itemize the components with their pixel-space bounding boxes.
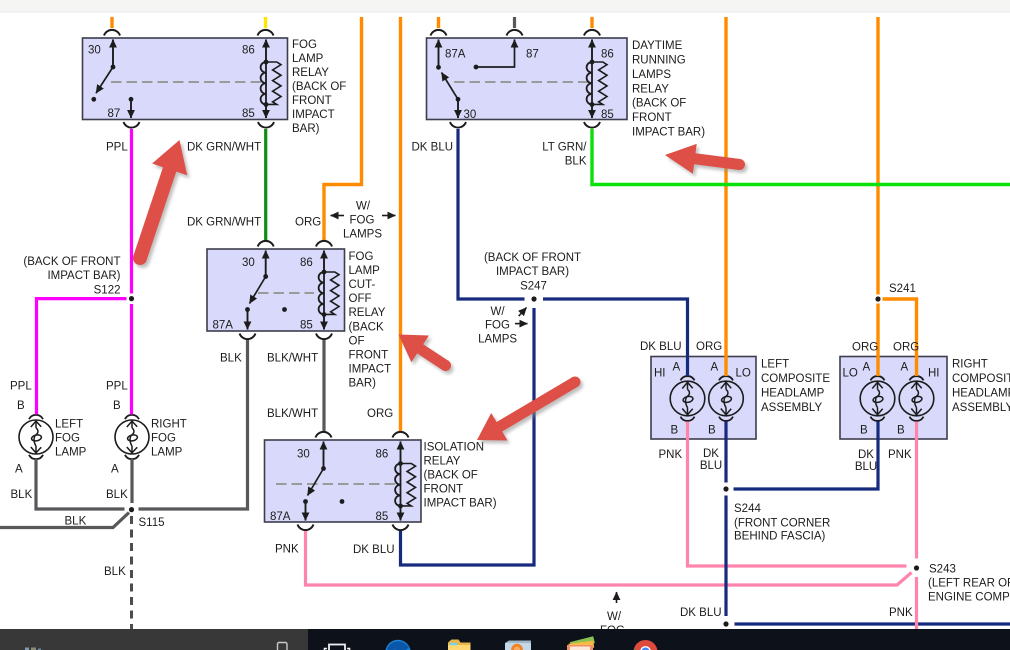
- relay K4 dashed armature line: [276, 483, 396, 485]
- svg-text:IMPACT BAR): IMPACT BAR): [424, 498, 497, 510]
- node S241: [875, 283, 915, 302]
- relay K1 pin 30 terminal: [111, 40, 116, 70]
- taskbar photo gallery icon: [567, 636, 595, 650]
- label BLK/WHT above K4 pin 30: [267, 408, 318, 420]
- svg-text:BLK: BLK: [104, 566, 126, 578]
- label PNK under right headlamp: [888, 449, 912, 461]
- relay K1 pin 86 terminal: [265, 40, 267, 63]
- left composite headlamp assembly box: [651, 357, 756, 440]
- svg-text:(BACK OF FRONT: (BACK OF FRONT: [23, 256, 120, 268]
- svg-text:FRONT: FRONT: [292, 95, 332, 107]
- node S122: [129, 296, 134, 301]
- svg-text:COMPOSITE: COMPOSITE: [761, 373, 830, 385]
- svg-text:DK BLU: DK BLU: [680, 607, 722, 619]
- label BLK on left edge wire: [65, 516, 87, 528]
- relay K3 dashed armature line: [258, 292, 314, 294]
- svg-text:(BACK OF FRONT: (BACK OF FRONT: [484, 252, 581, 264]
- left fog lamp name label: [55, 419, 87, 459]
- svg-text:ORG: ORG: [295, 217, 321, 229]
- node S115: [129, 507, 165, 529]
- svg-text:FOG: FOG: [350, 215, 375, 227]
- svg-text:BLK: BLK: [565, 156, 587, 168]
- svg-text:ORG: ORG: [367, 408, 393, 420]
- label DK BLU under left headlamp: [700, 448, 722, 472]
- svg-text:(BACK OF: (BACK OF: [632, 98, 686, 110]
- svg-text:FOG: FOG: [349, 251, 374, 263]
- right headlamp name label: [952, 359, 1010, 415]
- wire DK BLU S244 branch to right headlamp LO-B: [734, 422, 879, 490]
- svg-text:S247: S247: [520, 281, 547, 293]
- relay K4 ISOLATION RELAY box: [265, 440, 422, 522]
- svg-text:DK: DK: [858, 449, 874, 461]
- taskbar phone icon: [278, 643, 288, 650]
- svg-text:A: A: [111, 464, 119, 476]
- svg-text:DK BLU: DK BLU: [412, 142, 454, 154]
- svg-text:FRONT: FRONT: [632, 112, 672, 124]
- right fog lamp E6: [115, 415, 149, 459]
- relay K4 name label: [424, 442, 497, 510]
- svg-text:FRONT: FRONT: [424, 484, 464, 496]
- svg-text:LAMPS: LAMPS: [343, 229, 382, 241]
- relay K1 coil: [261, 60, 281, 107]
- svg-text:LO: LO: [736, 368, 751, 380]
- svg-text:DK: DK: [703, 448, 719, 460]
- svg-text:FOG: FOG: [55, 433, 80, 445]
- taskbar right black section: [308, 629, 1010, 650]
- svg-text:DK BLU: DK BLU: [353, 544, 395, 556]
- label B at right fog lamp: [113, 400, 121, 412]
- relay K2 pin 86 terminal: [591, 40, 593, 63]
- node S247: [531, 296, 536, 301]
- label ORG above K3: [295, 217, 321, 229]
- svg-text:A: A: [15, 464, 23, 476]
- svg-text:(BACK: (BACK: [349, 321, 384, 333]
- wire LT GRN/BLK from K2 pin 85 right across page: [584, 122, 1010, 185]
- svg-text:RUNNING: RUNNING: [632, 55, 686, 67]
- svg-text:B: B: [671, 425, 679, 437]
- label DK BLU above left headlamp: [640, 341, 682, 353]
- svg-text:S243: S243: [929, 564, 956, 576]
- svg-text:RELAY: RELAY: [632, 84, 669, 96]
- svg-text:87A: 87A: [213, 320, 234, 332]
- relay K4 pin 87A terminal: [305, 502, 307, 521]
- wire BLK from left edge to S115: [0, 513, 129, 528]
- red annotation arrow 2: [399, 335, 452, 372]
- svg-text:RIGHT: RIGHT: [952, 359, 988, 371]
- svg-text:30: 30: [464, 109, 477, 121]
- svg-text:W/: W/: [356, 201, 371, 213]
- svg-text:LEFT: LEFT: [761, 359, 789, 371]
- wire ORG feeder to K2 pin 86: [584, 17, 600, 36]
- svg-text:LAMPS: LAMPS: [632, 69, 671, 81]
- relay K2 switch blade: [442, 73, 461, 102]
- relay K1 switch blade: [91, 67, 113, 102]
- red annotation arrow 4: [665, 144, 745, 174]
- taskbar folder explorer icon: [448, 640, 471, 650]
- relay K2 DAYTIME RUNNING LAMPS RELAY box: [427, 38, 628, 120]
- svg-text:A: A: [711, 362, 719, 374]
- label PPL under K1 pin 87: [106, 142, 128, 154]
- svg-text:ENGINE COMPT: ENGINE COMPT: [928, 592, 1010, 604]
- svg-text:BLK: BLK: [220, 353, 242, 365]
- svg-text:A: A: [673, 362, 681, 374]
- label ORG above right headlamp HI: [893, 342, 919, 354]
- label LT GRN/BLK under K2 pin 85: [542, 142, 587, 168]
- svg-text:30: 30: [242, 257, 255, 269]
- label BLK under right fog lamp: [106, 489, 128, 501]
- label W/ FOG at bottom with up arrow: [600, 592, 625, 637]
- svg-text:OFF: OFF: [349, 293, 372, 305]
- left headlamp pin labels: [654, 362, 751, 437]
- label DK GRN/WHT under K1 pin 85: [187, 142, 261, 154]
- left headlamp name label: [761, 359, 830, 415]
- svg-text:RELAY: RELAY: [349, 307, 386, 319]
- wire PPL S122 branch to left fog lamp B: [37, 299, 127, 415]
- svg-text:W/: W/: [490, 306, 505, 318]
- relay K1 dashed armature line: [111, 81, 264, 83]
- svg-text:RELAY: RELAY: [424, 456, 461, 468]
- right composite headlamp assembly box: [840, 357, 947, 440]
- svg-text:IMPACT BAR): IMPACT BAR): [47, 270, 120, 282]
- taskbar left dark section: [0, 629, 308, 650]
- svg-text:DK GRN/WHT: DK GRN/WHT: [187, 217, 261, 229]
- label W/ FOG LAMPS at orange jog: [331, 201, 396, 241]
- svg-text:PNK: PNK: [659, 449, 683, 461]
- svg-text:ORG: ORG: [893, 342, 919, 354]
- svg-text:ASSEMBLY: ASSEMBLY: [952, 402, 1010, 414]
- svg-text:(BACK OF: (BACK OF: [424, 470, 478, 482]
- svg-text:DAYTIME: DAYTIME: [632, 40, 683, 52]
- relay K4 unused contact dot: [340, 499, 345, 504]
- wire DK BLU from S247 to left headlamp HI: [543, 299, 688, 376]
- svg-text:A: A: [901, 362, 909, 374]
- relay K4 switch blade: [303, 469, 323, 504]
- svg-text:87: 87: [108, 108, 121, 120]
- svg-text:RELAY: RELAY: [292, 67, 329, 79]
- svg-text:86: 86: [376, 449, 389, 461]
- relay K2 pin 85 terminal: [591, 105, 593, 119]
- svg-text:IMPACT BAR): IMPACT BAR): [632, 127, 705, 139]
- label PPL at right fog lamp: [106, 381, 128, 393]
- svg-text:B: B: [113, 400, 121, 412]
- taskbar task-view icon: [325, 645, 350, 650]
- svg-text:FRONT: FRONT: [349, 350, 389, 362]
- relay K3 pin 85 terminal: [323, 315, 325, 330]
- label ORG above K4 pin 86: [367, 408, 393, 420]
- svg-text:S122: S122: [94, 285, 121, 297]
- relay K3 pin 30 terminal: [263, 251, 268, 279]
- svg-text:DK BLU: DK BLU: [640, 341, 682, 353]
- label ORG above right headlamp LO: [852, 342, 878, 354]
- svg-text:87A: 87A: [270, 511, 291, 523]
- svg-text:86: 86: [300, 257, 313, 269]
- relay K3 coil: [319, 270, 339, 317]
- svg-text:BLU: BLU: [700, 460, 722, 472]
- svg-text:ASSEMBLY: ASSEMBLY: [761, 402, 822, 414]
- svg-text:HI: HI: [654, 368, 666, 380]
- label DK BLU under right headlamp: [855, 449, 877, 473]
- taskbar edge browser icon: [385, 640, 410, 650]
- relay K3 name label: [349, 251, 392, 390]
- red annotation arrow 1: [133, 140, 187, 265]
- svg-text:86: 86: [601, 49, 614, 61]
- wire BLK/WHT from K3 pin 85 to K4 pin 30: [316, 334, 333, 438]
- left fog lamp E5: [19, 415, 53, 459]
- svg-text:OF: OF: [349, 335, 365, 347]
- wire DK BLU bottom run to right edge: [735, 622, 1010, 625]
- label PNK under left headlamp: [659, 449, 683, 461]
- S244 location label: [734, 503, 830, 543]
- label PNK under K4 pin 87A: [275, 544, 299, 556]
- svg-text:LT GRN/: LT GRN/: [542, 142, 587, 154]
- wire ORG feeder to K2 pin 87A: [431, 17, 447, 36]
- svg-text:CUT-: CUT-: [349, 279, 376, 291]
- wire DK BLU left headlamp LO-B to S244 and down: [724, 422, 727, 617]
- node S243: [914, 565, 919, 570]
- svg-text:BLU: BLU: [855, 461, 877, 473]
- relay K4 coil: [395, 461, 415, 508]
- svg-text:85: 85: [376, 511, 389, 523]
- svg-text:BLK/WHT: BLK/WHT: [267, 408, 318, 420]
- svg-text:LEFT: LEFT: [55, 419, 83, 431]
- svg-text:BEHIND FASCIA): BEHIND FASCIA): [734, 531, 826, 543]
- svg-text:BAR): BAR): [349, 378, 377, 390]
- svg-text:IMPACT BAR): IMPACT BAR): [496, 266, 569, 278]
- relay K3 pin 86 terminal: [323, 251, 325, 273]
- svg-text:ISOLATION: ISOLATION: [424, 442, 485, 454]
- wire ORG feeder to K1 pin 30: [104, 17, 120, 36]
- wire PPL from K1 pin 87 to S122 and right fog lamp B: [124, 122, 140, 415]
- svg-text:(BACK OF: (BACK OF: [292, 81, 346, 93]
- wire PNK left headlamp HI-B to S243: [688, 422, 907, 567]
- svg-text:S241: S241: [889, 283, 916, 295]
- relay K2 pin labels: [445, 49, 614, 122]
- svg-text:30: 30: [297, 449, 310, 461]
- svg-text:BLK: BLK: [65, 516, 87, 528]
- wire ORG S241 branch to right headlamp HI: [883, 299, 917, 376]
- label BLK under left fog lamp: [11, 489, 33, 501]
- svg-text:HEADLAMP: HEADLAMP: [952, 388, 1010, 400]
- svg-text:RIGHT: RIGHT: [151, 419, 187, 431]
- svg-text:85: 85: [242, 108, 255, 120]
- wire PNK from K4 pin 87A to S243: [298, 525, 912, 586]
- svg-text:W/: W/: [607, 611, 622, 623]
- relay K4 pin 86 terminal: [400, 442, 402, 464]
- relay K1 pin 85 terminal: [265, 105, 267, 119]
- relay K1 pin 87 terminal: [129, 97, 134, 118]
- wire BLK left fog lamp A to S115: [36, 459, 125, 509]
- svg-text:PNK: PNK: [888, 449, 912, 461]
- taskbar chrome icon: [634, 640, 658, 650]
- relay K2 name label: [632, 40, 705, 139]
- label ORG above left headlamp: [696, 341, 722, 353]
- svg-text:HEADLAMP: HEADLAMP: [761, 388, 825, 400]
- wire ORG vertical with jog to K3 pin 86: [316, 17, 362, 247]
- svg-text:86: 86: [242, 45, 255, 57]
- svg-text:85: 85: [601, 109, 614, 121]
- svg-text:FOG: FOG: [485, 320, 510, 332]
- svg-text:(FRONT CORNER: (FRONT CORNER: [734, 518, 830, 530]
- svg-text:HI: HI: [928, 368, 940, 380]
- label DK BLU at bottom run: [680, 607, 722, 619]
- svg-text:LAMPS: LAMPS: [478, 333, 517, 345]
- svg-text:FOG: FOG: [292, 39, 317, 51]
- svg-text:BLK/WHT: BLK/WHT: [267, 353, 318, 365]
- label PNK at bottom: [889, 607, 913, 619]
- svg-text:S115: S115: [139, 517, 165, 529]
- taskbar software box icon: [505, 641, 531, 650]
- right headlamp pin labels: [843, 362, 940, 437]
- svg-text:BAR): BAR): [292, 123, 320, 135]
- node S244: [723, 486, 728, 491]
- svg-text:ORG: ORG: [852, 342, 878, 354]
- svg-text:PNK: PNK: [275, 544, 299, 556]
- wire PNK right headlamp HI-B down through S243: [915, 422, 918, 632]
- svg-text:LAMP: LAMP: [55, 447, 87, 459]
- svg-text:PPL: PPL: [106, 142, 128, 154]
- left headlamp LO bulb E2: [709, 376, 744, 421]
- svg-text:PNK: PNK: [889, 607, 913, 619]
- node DK BLU bottom junction: [723, 621, 728, 626]
- svg-text:A: A: [863, 362, 871, 374]
- relay K4 pin 30 terminal: [321, 442, 326, 471]
- relay K1 FOG LAMP RELAY box: [83, 38, 288, 120]
- svg-text:IMPACT: IMPACT: [349, 364, 392, 376]
- relay K2 pin 87A terminal: [436, 40, 441, 70]
- wire DK BLU from S247 down to K4 pin 85: [393, 308, 535, 565]
- svg-text:DK GRN/WHT: DK GRN/WHT: [187, 142, 261, 154]
- label DK BLU under K2 pin 30: [412, 142, 454, 154]
- relay K3 unused contact dot: [282, 307, 287, 312]
- svg-text:S244: S244: [734, 503, 761, 515]
- label PPL at left fog lamp: [10, 381, 32, 393]
- label W/ FOG LAMPS at S247: [478, 306, 527, 345]
- relay K3 FOG LAMP CUT-OFF RELAY box: [207, 249, 345, 331]
- svg-text:PPL: PPL: [10, 381, 32, 393]
- label BLK under K3 pin 87A: [220, 353, 242, 365]
- svg-text:IMPACT: IMPACT: [292, 109, 335, 121]
- label DK GRN/WHT above K3: [187, 217, 261, 229]
- svg-text:87: 87: [526, 49, 539, 61]
- svg-text:B: B: [860, 425, 868, 437]
- svg-text:ORG: ORG: [696, 341, 722, 353]
- wire ORG vertical to K4 pin 86: [393, 17, 409, 438]
- svg-text:COMPOSITE: COMPOSITE: [952, 373, 1010, 385]
- label DK BLU under K4 pin 85: [353, 544, 395, 556]
- relay K3 switch blade: [245, 277, 266, 312]
- svg-text:30: 30: [88, 45, 101, 57]
- S122 location label: [23, 256, 120, 297]
- relay K2 pin 30 terminal: [457, 99, 459, 118]
- left headlamp HI bulb E1: [670, 376, 705, 421]
- relay K2 dashed armature line: [454, 81, 588, 83]
- label BLK on dashed ground: [104, 566, 126, 578]
- S243 location label: [928, 564, 1010, 604]
- label BLK/WHT under K3 pin 85: [267, 353, 318, 365]
- svg-text:LO: LO: [843, 368, 858, 380]
- label B at left fog lamp: [17, 400, 25, 412]
- svg-text:BLK: BLK: [11, 489, 33, 501]
- right headlamp HI bulb E4: [899, 376, 934, 421]
- wire ORG vertical to S241 and right headlamp LO: [876, 17, 879, 376]
- wire BLK right fog lamp A to S115: [130, 459, 133, 503]
- relay K1 name label: [292, 39, 346, 135]
- relay K2 pin 87 terminal: [474, 40, 515, 70]
- svg-text:(LEFT REAR OF: (LEFT REAR OF: [928, 578, 1010, 590]
- label A at right fog lamp: [111, 464, 119, 476]
- svg-text:B: B: [708, 425, 716, 437]
- right fog lamp name label: [151, 419, 187, 459]
- relay K4 pin 85 terminal: [400, 506, 402, 521]
- wire BLK from K3 pin 87A to S115: [139, 334, 256, 510]
- top toolbar band: [0, 0, 1010, 12]
- red annotation arrow 3: [477, 377, 581, 441]
- svg-text:FOG: FOG: [151, 433, 176, 445]
- svg-text:LAMP: LAMP: [151, 447, 183, 459]
- relay K3 pin labels: [213, 257, 313, 332]
- relay K4 pin labels: [270, 449, 388, 524]
- wire DK GRN/WHT from K1 pin 85 to K3 pin 30: [258, 122, 274, 247]
- wire YEL feeder to K1 pin 86: [258, 17, 274, 36]
- S247 location label: [484, 252, 581, 293]
- svg-text:87A: 87A: [445, 49, 466, 61]
- svg-text:LAMP: LAMP: [292, 53, 324, 65]
- relay K3 pin 87A terminal: [247, 310, 249, 330]
- right headlamp LO bulb E3: [860, 376, 895, 421]
- svg-text:PPL: PPL: [106, 381, 128, 393]
- svg-text:LAMP: LAMP: [349, 265, 381, 277]
- wire ORG vertical to left headlamp LO: [724, 17, 727, 376]
- relay K1 pin labels: [88, 45, 255, 121]
- svg-text:B: B: [17, 400, 25, 412]
- wire BLK dashed ground from S115: [130, 516, 133, 631]
- relay K2 coil: [587, 60, 607, 107]
- svg-text:B: B: [897, 425, 905, 437]
- wire DK BLU from K2 pin 30 to S247: [450, 122, 525, 299]
- label A at left fog lamp: [15, 464, 23, 476]
- svg-text:BLK: BLK: [106, 489, 128, 501]
- wire BLK feeder to K2 pin 87: [507, 17, 523, 36]
- svg-text:85: 85: [300, 320, 313, 332]
